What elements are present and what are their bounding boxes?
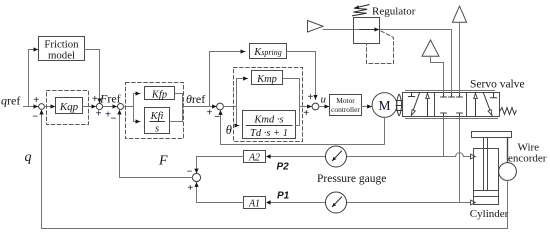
- pipe P2 with hop: [270, 153, 471, 157]
- wire exhaust small to valve: [431, 56, 444, 92]
- svg-text:s: s: [155, 124, 159, 135]
- block A1: [244, 197, 266, 209]
- cylinder piston rods: [483, 138, 485, 191]
- wire theta feedback: [221, 110, 385, 144]
- valve right cell blocked port: [490, 93, 496, 98]
- coupling between motor and valve: [397, 95, 402, 116]
- svg-text:Wire: Wire: [518, 141, 540, 153]
- svg-text:A2: A2: [248, 152, 260, 163]
- wire J3 to branch: [124, 94, 141, 107]
- wire Kqp to J2: [83, 106, 97, 108]
- summing junction J4: [217, 103, 224, 110]
- svg-text:−: −: [111, 114, 117, 125]
- wire J5 to motor controller: [319, 106, 329, 108]
- regulator box: [354, 18, 380, 44]
- wire A2 to F junction: [197, 157, 244, 174]
- valve left cell diagonal arrow: [411, 93, 419, 116]
- friction model box: [39, 37, 85, 61]
- supply triangle: [308, 21, 324, 33]
- svg-text:θref: θref: [186, 92, 205, 106]
- motor M circle: [372, 93, 397, 118]
- cylinder top plate: [472, 132, 512, 138]
- svg-text:+: +: [187, 183, 193, 194]
- svg-text:q: q: [25, 150, 32, 165]
- pressure gauge P1: [326, 192, 347, 213]
- block Kqp: [56, 98, 83, 114]
- svg-text:A1: A1: [248, 198, 260, 209]
- svg-text:Motor: Motor: [336, 96, 355, 105]
- svg-text:θ: θ: [226, 123, 232, 137]
- wire branch to Kmd: [237, 107, 239, 126]
- wire theta-ref to J4: [183, 106, 217, 108]
- wire merge to J5: [300, 106, 312, 108]
- svg-text:F: F: [158, 154, 168, 169]
- valve right cell vertical arrow: [475, 93, 477, 116]
- block Kspring: [250, 44, 287, 59]
- arrow into cylinder bottom port: [471, 200, 476, 205]
- svg-text:Kmp: Kmp: [256, 74, 277, 85]
- summing junction J2: [96, 103, 102, 109]
- block A2: [244, 151, 266, 163]
- svg-text:u: u: [321, 94, 327, 106]
- exhaust triangle large: [452, 6, 466, 22]
- dashed box around Kqp: [47, 91, 89, 125]
- svg-text:qref: qref: [1, 94, 20, 108]
- svg-text:P2: P2: [277, 162, 290, 173]
- svg-text:Kspring: Kspring: [253, 47, 281, 58]
- wire J1 to Kqp: [45, 106, 56, 108]
- wire branch to Kfi: [134, 107, 141, 122]
- svg-text:−: −: [214, 112, 220, 123]
- svg-text:Pressure gauge: Pressure gauge: [317, 173, 386, 185]
- svg-text:Regulator: Regulator: [372, 6, 416, 18]
- block Kmp: [252, 71, 283, 85]
- wire exhaust large to valve: [459, 22, 461, 92]
- svg-text:P1: P1: [277, 191, 290, 202]
- regulator spring symbol: [353, 8, 368, 16]
- wire J4 to branch: [224, 79, 248, 107]
- svg-text:+: +: [308, 92, 314, 103]
- wire A1 to F junction: [197, 182, 244, 202]
- dashed box around Kmp Kmd: [234, 68, 303, 142]
- arrow into A1: [266, 200, 271, 204]
- valve port B down pipe: [459, 117, 461, 203]
- valve return spring: [500, 108, 516, 115]
- svg-text:−: −: [32, 112, 38, 123]
- svg-text:Cylinder: Cylinder: [470, 208, 509, 220]
- svg-text:+: +: [92, 94, 98, 105]
- svg-text:controller: controller: [331, 105, 360, 114]
- wire tap to Kspring: [210, 52, 246, 107]
- valve port A down pipe: [443, 117, 445, 157]
- exhaust triangle small: [422, 40, 439, 56]
- svg-text:−: −: [187, 167, 193, 178]
- wire controller to motor: [362, 106, 372, 108]
- wire Kfp output: [175, 94, 183, 107]
- regulator supply line: [323, 30, 452, 93]
- valve left cell blocked port: [408, 93, 414, 97]
- cylinder body: [474, 149, 499, 205]
- wire tap to friction model: [29, 50, 38, 107]
- cylinder piston: [474, 191, 499, 197]
- pressure gauge P2: [326, 146, 347, 167]
- wire Kmp output: [283, 79, 300, 107]
- summing junction J5: [312, 103, 319, 110]
- block Kmd s over Td s plus 1: [243, 111, 296, 139]
- summing junction J1: [39, 104, 45, 110]
- valve right cell diagonal arrow: [484, 93, 492, 115]
- svg-text:Td ·s + 1: Td ·s + 1: [250, 128, 288, 139]
- dashed box around Kfp Kfi: [126, 83, 184, 139]
- valve bottom rail: [406, 118, 498, 120]
- valve left cell vertical arrow: [427, 93, 429, 116]
- wire encoder cable: [507, 138, 509, 163]
- wire Kmd output: [296, 107, 300, 126]
- block Kfi over s: [145, 108, 170, 134]
- svg-text:Kqp: Kqp: [59, 101, 79, 113]
- svg-text:+: +: [33, 95, 39, 106]
- arrow into cylinder top port: [471, 154, 476, 159]
- arrow into A2: [266, 154, 271, 158]
- valve middle cell top ports: [441, 93, 463, 98]
- wire F junction to J3: [120, 110, 193, 178]
- wire Kfi output: [170, 107, 183, 122]
- valve top rail: [406, 90, 495, 92]
- svg-text:Servo valve: Servo valve: [470, 78, 525, 90]
- wire qref input: [24, 106, 38, 108]
- svg-text:model: model: [48, 50, 75, 62]
- summing junction J3: [118, 104, 124, 110]
- wire q feedback: [42, 110, 508, 229]
- pipe P1: [270, 202, 471, 204]
- wire encoder circle: [499, 163, 517, 181]
- svg-text:+: +: [207, 107, 213, 118]
- svg-text:Kmd ·s: Kmd ·s: [253, 114, 283, 125]
- block Kfp: [145, 87, 175, 100]
- servo valve body: [403, 93, 500, 117]
- svg-text:Kfi: Kfi: [150, 111, 164, 122]
- regulator pilot dashed line: [367, 31, 394, 64]
- regulator internal arrow: [360, 29, 379, 31]
- svg-text:M: M: [378, 98, 390, 113]
- wire Kspring output to J5: [287, 52, 316, 100]
- svg-text:+: +: [303, 108, 309, 119]
- block motor controller: [330, 95, 362, 116]
- svg-text:Kfp: Kfp: [151, 89, 167, 100]
- svg-text:encorder: encorder: [508, 153, 547, 165]
- svg-text:+: +: [96, 109, 102, 120]
- wire J2 to J3: [103, 106, 118, 108]
- valve middle cell bottom ports: [441, 113, 463, 117]
- summing junction F: [192, 173, 200, 181]
- svg-text:Fref: Fref: [99, 92, 121, 106]
- wire friction model output to J2: [85, 50, 100, 104]
